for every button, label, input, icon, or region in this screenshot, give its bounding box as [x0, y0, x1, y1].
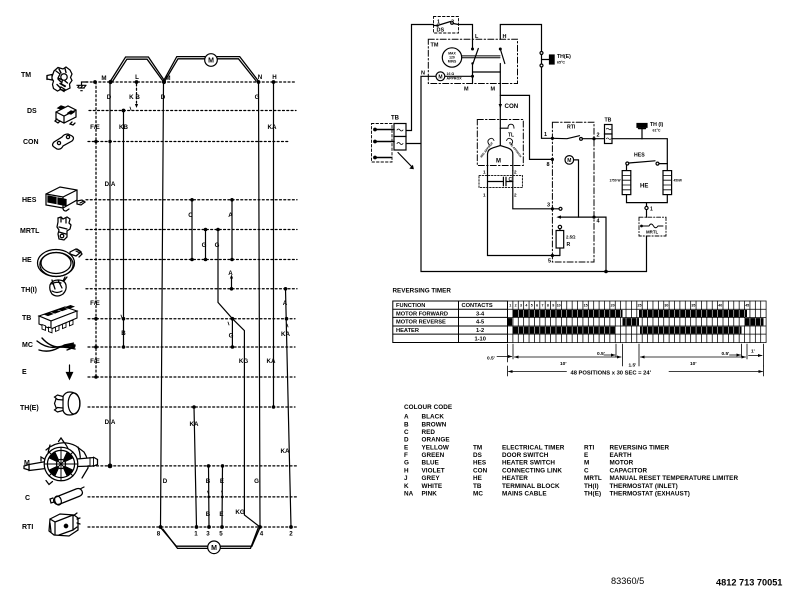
- svg-text:TH(E): TH(E): [20, 405, 39, 412]
- svg-text:48 POSITIONS x 30 SEC = 24': 48 POSITIONS x 30 SEC = 24': [571, 371, 652, 377]
- svg-text:1: 1: [483, 193, 486, 198]
- svg-text:EARTH: EARTH: [610, 452, 632, 459]
- svg-text:MOTOR FORWARD: MOTOR FORWARD: [396, 311, 448, 317]
- wire M-8 vertical: [161, 82, 164, 527]
- svg-text:8: 8: [157, 531, 161, 538]
- wire TH(E) to RTI 1: [542, 67, 553, 138]
- svg-text:K: K: [404, 483, 409, 490]
- svg-text:G: G: [202, 242, 207, 249]
- svg-text:FUNCTION: FUNCTION: [396, 303, 425, 309]
- svg-text:J: J: [404, 475, 408, 482]
- svg-text:1750 W: 1750 W: [610, 179, 621, 183]
- wire G-N vertical: [259, 82, 261, 527]
- wire TH(I) to HE right: [642, 139, 667, 171]
- svg-text:MRTL: MRTL: [20, 228, 40, 235]
- svg-text:1: 1: [483, 170, 486, 175]
- svg-text:D/A: D/A: [105, 181, 116, 188]
- svg-text:1': 1': [751, 349, 755, 355]
- reversing timer RTI box: [552, 122, 594, 262]
- svg-text:M: M: [211, 545, 217, 552]
- svg-text:2: 2: [514, 170, 517, 175]
- svg-text:C: C: [404, 429, 409, 436]
- thermostat inlet TH(I) label: [21, 287, 37, 294]
- wire H-KA vertical: [273, 82, 275, 407]
- door switch DS label: [27, 108, 37, 115]
- svg-text:TL: TL: [508, 133, 514, 139]
- svg-text:DOOR SWITCH: DOOR SWITCH: [502, 452, 549, 459]
- svg-text:GREY: GREY: [422, 475, 441, 482]
- ladder dashed rows: [86, 82, 298, 527]
- svg-text:M: M: [208, 58, 214, 65]
- svg-text:DS: DS: [27, 108, 37, 115]
- heater HE label: [22, 257, 32, 264]
- svg-text:1.5': 1.5': [629, 363, 637, 369]
- svg-text:MC: MC: [22, 342, 33, 349]
- row TM: [86, 81, 296, 83]
- svg-text:4: 4: [260, 531, 264, 538]
- wire A arrow short: [231, 278, 233, 289]
- table frame: [393, 301, 508, 343]
- svg-text:REVERSING TIMER: REVERSING TIMER: [393, 288, 452, 295]
- wire KB vertical: [123, 111, 125, 348]
- svg-text:1-10: 1-10: [475, 336, 486, 342]
- svg-text:K B: K B: [129, 94, 140, 101]
- svg-text:65°C: 65°C: [557, 61, 565, 65]
- svg-text:TM: TM: [473, 444, 482, 451]
- wire B vertical: [208, 466, 211, 527]
- svg-text:TM: TM: [431, 43, 439, 49]
- svg-text:G: G: [254, 478, 259, 485]
- svg-text:N: N: [421, 71, 425, 77]
- svg-text:1-2: 1-2: [476, 328, 484, 334]
- thermal limiter TL: [500, 124, 514, 138]
- timer motor TM: [421, 62, 474, 80]
- earth E label: [22, 369, 27, 376]
- svg-text:20: 20: [611, 304, 615, 308]
- motor M top circle: [205, 54, 218, 67]
- svg-text:6: 6: [536, 304, 538, 308]
- svg-text:16 Ω: 16 Ω: [447, 72, 455, 76]
- svg-text:4: 4: [525, 304, 527, 308]
- bottom cable: [161, 528, 261, 549]
- svg-text:WHITE: WHITE: [422, 483, 443, 490]
- mains cable MC label: [22, 342, 33, 349]
- motor M schematic winding dome: [479, 138, 523, 174]
- svg-text:TB: TB: [605, 118, 612, 124]
- svg-text:35: 35: [691, 304, 695, 308]
- svg-text:25: 25: [638, 304, 642, 308]
- svg-text:H: H: [503, 34, 507, 40]
- svg-text:E: E: [22, 369, 27, 376]
- wire E vertical: [221, 466, 224, 527]
- svg-text:5: 5: [219, 531, 223, 538]
- reversing timer RTI label: [22, 524, 33, 531]
- svg-text:KG: KG: [235, 509, 244, 516]
- svg-text:D: D: [163, 478, 168, 485]
- svg-text:10': 10': [690, 361, 696, 367]
- dimension 0.5 arrows: [497, 354, 763, 359]
- svg-text:DS: DS: [473, 452, 482, 459]
- camshaft double line: [462, 56, 500, 58]
- svg-text:TH(E): TH(E): [584, 491, 601, 498]
- row TH(E): [88, 406, 295, 408]
- svg-text:1: 1: [509, 304, 511, 308]
- svg-text:MAINS CABLE: MAINS CABLE: [502, 491, 547, 498]
- svg-text:HE: HE: [473, 475, 482, 482]
- svg-text:450W: 450W: [674, 179, 682, 183]
- svg-text:L: L: [135, 74, 139, 81]
- svg-text:M: M: [464, 87, 469, 93]
- svg-text:ELECTRICAL TIMER: ELECTRICAL TIMER: [502, 444, 565, 451]
- svg-text:MOTOR REVERSE: MOTOR REVERSE: [396, 320, 446, 326]
- motor M label: [24, 460, 30, 467]
- row CON: [88, 141, 289, 143]
- door switch DS icon: [55, 106, 76, 125]
- svg-text:4-5: 4-5: [476, 320, 484, 326]
- door switch DS schematic: [434, 17, 459, 34]
- svg-text:HES: HES: [634, 153, 645, 159]
- svg-text:H: H: [404, 467, 409, 474]
- svg-text:5: 5: [531, 304, 533, 308]
- wire D vertical: [109, 82, 111, 466]
- svg-text:TB: TB: [22, 315, 31, 322]
- svg-text:E: E: [219, 511, 223, 518]
- svg-text:HE: HE: [22, 257, 32, 264]
- svg-text:A: A: [228, 212, 233, 219]
- wire DS to left rail and TB: [406, 25, 434, 131]
- motor M schematic box: [477, 120, 523, 166]
- svg-text:2: 2: [289, 531, 293, 538]
- svg-text:THERMOSTAT (EXHAUST): THERMOSTAT (EXHAUST): [610, 491, 690, 498]
- svg-text:5: 5: [548, 259, 551, 265]
- heater switch HES schematic: [626, 153, 668, 171]
- bar cell separators: [513, 310, 761, 333]
- svg-text:D: D: [161, 94, 166, 101]
- svg-text:M: M: [491, 87, 496, 93]
- svg-text:9: 9: [552, 304, 554, 308]
- svg-text:F/E: F/E: [90, 124, 100, 131]
- row RTI: [88, 526, 298, 528]
- svg-text:M: M: [567, 158, 571, 164]
- svg-text:MINS: MINS: [448, 60, 457, 64]
- motor M icon: [24, 438, 98, 485]
- svg-text:40: 40: [718, 304, 722, 308]
- svg-text:TH(E): TH(E): [557, 54, 571, 60]
- wire TB lower stub: [406, 143, 421, 145]
- svg-text:3-4: 3-4: [476, 311, 485, 317]
- svg-text:0.5': 0.5': [722, 351, 730, 357]
- svg-text:45: 45: [745, 304, 749, 308]
- svg-text:2: 2: [514, 193, 517, 198]
- mains earth arrow: [398, 153, 413, 169]
- svg-text:APPROX: APPROX: [447, 77, 463, 81]
- wire G1 vertical: [205, 230, 207, 260]
- svg-text:VIOLET: VIOLET: [422, 467, 445, 474]
- wire A vertical: [231, 200, 233, 260]
- svg-text:TH(I): TH(I): [584, 483, 599, 490]
- svg-text:0.5': 0.5': [597, 351, 605, 357]
- svg-text:1: 1: [194, 531, 198, 538]
- TM switch L: [464, 34, 479, 93]
- svg-text:MANUAL RESET TEMPERATURE LIMIT: MANUAL RESET TEMPERATURE LIMITER: [610, 475, 739, 482]
- svg-text:D: D: [107, 94, 112, 101]
- svg-text:3: 3: [547, 203, 550, 209]
- svg-text:HES: HES: [473, 460, 486, 467]
- svg-text:D/A: D/A: [105, 419, 116, 426]
- dimension arrows 10 min spans: [514, 356, 746, 359]
- svg-text:B: B: [206, 511, 211, 518]
- svg-text:HES: HES: [22, 197, 37, 204]
- grid header numbers: [509, 304, 749, 308]
- svg-text:TERMINAL BLOCK: TERMINAL BLOCK: [502, 483, 560, 490]
- svg-text:THERMOSTAT (INLET): THERMOSTAT (INLET): [610, 483, 678, 490]
- svg-text:C: C: [584, 467, 589, 474]
- thermostat exhaust TH(E) icon: [55, 392, 81, 415]
- svg-text:HEATER: HEATER: [396, 328, 419, 334]
- svg-text:2: 2: [597, 133, 600, 139]
- mains cable MC icon: [37, 338, 75, 351]
- resistor R: [556, 225, 576, 255]
- svg-text:KA: KA: [190, 421, 199, 428]
- RTI terminal 4 arrow wire: [556, 215, 607, 273]
- RTI terminal 3: [547, 203, 562, 211]
- svg-text:CON: CON: [23, 139, 39, 146]
- svg-text:KB: KB: [119, 124, 128, 131]
- TM switch H: [491, 34, 507, 93]
- manual reset temperature limiter MRTL label: [20, 228, 40, 235]
- heater HE: [610, 171, 682, 218]
- terminal block TB 2: [594, 118, 642, 144]
- svg-text:MRTL: MRTL: [584, 475, 602, 482]
- svg-text:10: 10: [557, 304, 561, 308]
- terminal block TB icon: [39, 305, 77, 332]
- svg-text:BROWN: BROWN: [422, 421, 447, 428]
- svg-text:30: 30: [664, 304, 668, 308]
- svg-text:B: B: [121, 330, 126, 337]
- svg-text:M: M: [438, 75, 442, 81]
- svg-text:TM: TM: [21, 72, 31, 79]
- svg-text:REVERSING TIMER: REVERSING TIMER: [610, 444, 670, 451]
- svg-text:F/E: F/E: [90, 358, 100, 365]
- terminal block TB mains: [391, 116, 406, 151]
- row HE: [86, 259, 297, 261]
- RTI switch 1-2: [544, 132, 600, 140]
- svg-text:8: 8: [547, 304, 549, 308]
- svg-text:4812 713 70051: 4812 713 70051: [716, 578, 782, 588]
- svg-text:M: M: [165, 75, 170, 82]
- row MC: [88, 346, 295, 348]
- svg-text:2: 2: [515, 304, 517, 308]
- RTI timer motor and wire: [546, 156, 578, 218]
- motor leg 2 wire to 3: [513, 171, 559, 209]
- heater switch HES icon: [46, 187, 85, 211]
- svg-text:0.5': 0.5': [487, 356, 495, 362]
- top cable roof: [111, 57, 259, 83]
- connecting link CON label: [23, 139, 39, 146]
- svg-text:RTI: RTI: [584, 444, 595, 451]
- svg-text:KG: KG: [239, 358, 248, 365]
- svg-text:HEATER SWITCH: HEATER SWITCH: [502, 460, 555, 467]
- electrical timer TM icon: [47, 67, 72, 92]
- dimension labels: [487, 349, 755, 369]
- svg-text:7: 7: [542, 304, 544, 308]
- svg-text:E: E: [220, 478, 224, 485]
- svg-text:N: N: [258, 74, 263, 81]
- svg-text:H: H: [272, 74, 277, 81]
- svg-text:TB: TB: [473, 483, 482, 490]
- capacitor C icon: [50, 487, 84, 506]
- svg-text:A: A: [283, 300, 288, 307]
- svg-text:3: 3: [206, 531, 210, 538]
- connecting link CON icon: [53, 134, 74, 149]
- wire G2-KG bent: [218, 230, 260, 528]
- wire N rail: [421, 76, 647, 271]
- ladder wire labels: [90, 74, 293, 538]
- terminal block TB label: [22, 315, 31, 322]
- row TH(I): [86, 288, 297, 290]
- svg-text:G: G: [215, 242, 220, 249]
- svg-text:F: F: [404, 452, 408, 459]
- wire KA mid vertical: [194, 407, 197, 527]
- svg-text:G: G: [404, 460, 409, 467]
- svg-text:RED: RED: [422, 429, 436, 436]
- wire G short TB-MC: [231, 319, 233, 347]
- svg-text:B: B: [404, 421, 409, 428]
- small tick marks: [121, 107, 288, 494]
- svg-text:RTI: RTI: [567, 125, 576, 131]
- motor M bottom circle: [208, 541, 221, 554]
- ladder junction dots: [93, 80, 293, 529]
- svg-text:M: M: [496, 159, 501, 165]
- svg-text:YELLOW: YELLOW: [422, 444, 449, 451]
- timer bars motor forward: [508, 310, 764, 334]
- MRTL schematic: [639, 217, 666, 271]
- svg-text:HE: HE: [640, 184, 648, 190]
- svg-text:15: 15: [584, 304, 588, 308]
- svg-text:G: G: [229, 333, 234, 340]
- electrical timer TM label: [21, 72, 31, 79]
- manual reset temperature limiter MRTL icon: [57, 217, 71, 240]
- thermostat inlet TH(I) icon: [50, 277, 67, 296]
- svg-text:COLOUR CODE: COLOUR CODE: [404, 404, 452, 411]
- svg-text:3: 3: [520, 304, 522, 308]
- svg-text:NA: NA: [404, 491, 414, 498]
- svg-text:KA: KA: [281, 331, 290, 338]
- arrowhead L-KB: [135, 104, 138, 108]
- row DS: [89, 110, 296, 112]
- svg-text:CONTACTS: CONTACTS: [462, 303, 493, 309]
- wire DS to TM L: [459, 25, 473, 50]
- heater switch HES label: [22, 197, 37, 204]
- mains cable leads: [375, 130, 394, 158]
- svg-text:61°C: 61°C: [653, 129, 661, 133]
- wire CON to RTI 8: [500, 95, 552, 159]
- svg-text:CAPACITOR: CAPACITOR: [610, 467, 648, 474]
- TM cross link: [473, 71, 501, 73]
- capacitor C label: [25, 495, 30, 502]
- row E: [88, 376, 295, 378]
- connecting link CON wire: [499, 84, 519, 146]
- svg-text:KA: KA: [267, 358, 276, 365]
- svg-text:C: C: [25, 495, 30, 502]
- svg-text:M: M: [584, 460, 589, 467]
- motor leg 1 wire to 5: [488, 171, 560, 256]
- svg-text:CONNECTING LINK: CONNECTING LINK: [502, 467, 562, 474]
- row MRTL: [86, 229, 297, 231]
- wire L-KB dashed arrow: [136, 84, 138, 105]
- capacitor C schematic: [479, 175, 522, 197]
- thermostat TH(E): [540, 52, 571, 68]
- timer dial: [442, 48, 461, 67]
- svg-text:RTI: RTI: [22, 524, 33, 531]
- svg-text:GREEN: GREEN: [422, 452, 445, 459]
- wire TM H to TH(E): [500, 25, 541, 52]
- thermostat exhaust TH(E) label: [20, 405, 39, 412]
- svg-text:B: B: [206, 478, 211, 485]
- svg-text:ORANGE: ORANGE: [422, 437, 450, 444]
- row TB: [88, 318, 295, 320]
- svg-text:F/E: F/E: [90, 300, 100, 307]
- svg-text:R: R: [567, 242, 571, 248]
- svg-text:A: A: [404, 414, 409, 421]
- svg-text:BLUE: BLUE: [422, 460, 439, 467]
- svg-text:G: G: [255, 94, 260, 101]
- reversing timer RTI icon: [49, 513, 80, 536]
- svg-text:KA: KA: [281, 448, 290, 455]
- heater HE icon: [38, 249, 83, 277]
- svg-text:E: E: [404, 444, 408, 451]
- row HES: [86, 199, 297, 201]
- svg-text:BLACK: BLACK: [422, 414, 445, 421]
- svg-text:HEATER: HEATER: [502, 475, 528, 482]
- timer TM box: [428, 39, 517, 83]
- thermostat TH(I): [637, 122, 664, 139]
- svg-text:C: C: [509, 177, 513, 183]
- wire C vertical: [191, 200, 193, 260]
- wire A-KA right vertical: [286, 289, 292, 527]
- svg-text:KA: KA: [268, 124, 277, 131]
- row C: [88, 496, 298, 498]
- earth E icon arrow: [67, 365, 73, 379]
- svg-text:CON: CON: [505, 103, 519, 110]
- overall span arrow: [508, 366, 764, 377]
- dimension ticks: [508, 344, 764, 366]
- earth symbol TM: [77, 82, 89, 91]
- svg-text:10': 10': [560, 361, 566, 367]
- row M: [88, 465, 298, 467]
- table texts: [396, 303, 493, 342]
- svg-text:TH (I): TH (I): [650, 122, 664, 128]
- svg-text:1: 1: [650, 207, 653, 213]
- mains cable dashed box: [372, 124, 393, 163]
- timer grid: [508, 301, 767, 343]
- svg-text:DS: DS: [437, 28, 445, 34]
- svg-text:1: 1: [544, 132, 547, 138]
- svg-text:D: D: [404, 437, 409, 444]
- svg-text:8: 8: [546, 162, 549, 168]
- svg-text:PINK: PINK: [422, 491, 438, 498]
- svg-text:MOTOR: MOTOR: [610, 460, 634, 467]
- svg-text:A: A: [228, 270, 233, 277]
- svg-text:MRTL: MRTL: [646, 230, 659, 235]
- svg-text:E: E: [584, 452, 588, 459]
- svg-text:2.5Ω: 2.5Ω: [566, 235, 576, 240]
- svg-text:83360/5: 83360/5: [611, 576, 644, 586]
- svg-text:TH(I): TH(I): [21, 287, 37, 294]
- svg-text:TB: TB: [391, 116, 400, 122]
- wire F/E dashed vertical: [95, 82, 97, 377]
- svg-text:M: M: [101, 75, 106, 82]
